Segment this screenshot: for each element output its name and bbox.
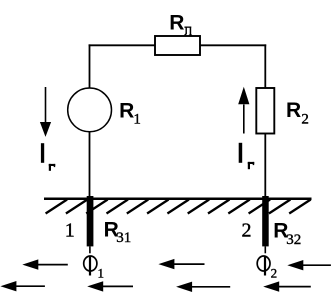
wire stub below electrode 1 (89, 246, 91, 253)
svg-text:2: 2 (271, 265, 278, 280)
svg-text:1: 1 (65, 219, 75, 241)
svg-text:R: R (286, 99, 301, 122)
ground surface line (44, 198, 312, 201)
wire stub below electrode 2 (264, 246, 266, 253)
wire left vertical (source to ground) (89, 132, 91, 199)
label Iг left (41, 143, 55, 171)
svg-text:R: R (169, 12, 184, 35)
potential gradient arrow row1 middle (158, 259, 204, 269)
resistor R2 (box) (256, 88, 274, 134)
wire right vertical (top wire to R2) (264, 44, 266, 88)
potential label φ1 (84, 256, 104, 280)
potential gradient arrow row1 left (22, 259, 68, 269)
wire left vertical (top wire to source) (89, 44, 91, 88)
potential gradient arrow row2 fourth (263, 281, 311, 291)
current arrow Iг right (up) (238, 87, 249, 134)
ground electrode 1 (thick rod) (87, 196, 94, 246)
wire right vertical (R2 to ground) (264, 134, 266, 199)
potential gradient arrow row2 second (87, 281, 133, 291)
ground hatching (46, 200, 311, 214)
potential label φ2 (257, 256, 277, 280)
svg-text:1: 1 (98, 265, 105, 280)
potential gradient arrow row1 right (287, 260, 331, 270)
resistor Rп (box) (155, 36, 200, 55)
wire top-left horizontal segment (89, 44, 156, 46)
current arrow Iг left (down) (40, 87, 51, 137)
svg-text:31: 31 (116, 230, 131, 246)
svg-text:32: 32 (286, 232, 301, 248)
svg-text:2: 2 (242, 219, 252, 241)
label Iг right (239, 143, 255, 169)
potential gradient arrow row2 first (0, 281, 45, 291)
source circle R1 (68, 88, 112, 132)
svg-text:1: 1 (133, 112, 141, 128)
potential gradient arrow row2 third (176, 282, 230, 292)
svg-text:2: 2 (301, 111, 309, 127)
svg-text:R: R (119, 100, 134, 123)
wire top-right horizontal segment (199, 44, 266, 46)
ground electrode 2 (thick rod) (262, 196, 269, 246)
